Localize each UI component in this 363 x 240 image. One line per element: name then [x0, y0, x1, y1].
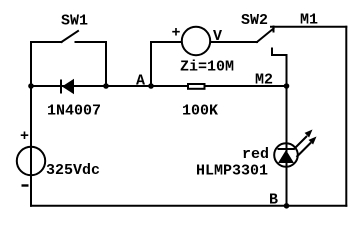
LED D2 cathode bar	[278, 148, 295, 150]
voltmeter U1 circle	[182, 27, 210, 55]
switch SW2 top contact	[273, 27, 275, 32]
diode D1 1N4007 cathode bar	[60, 80, 62, 94]
node junction dot left	[28, 83, 34, 89]
LED D2 circle	[274, 143, 298, 167]
node B junction dot	[284, 203, 290, 209]
switch SW2 lever	[257, 29, 274, 43]
svg-text:V: V	[213, 28, 222, 45]
svg-text:red: red	[242, 146, 269, 163]
wire LED branch	[286, 86, 288, 206]
wire M1 top	[271, 26, 346, 28]
node M2 junction dot	[284, 83, 290, 89]
diode D1 1N4007 triangle	[62, 79, 74, 94]
switch SW1 lever	[62, 31, 79, 42]
LED D2 triangle	[278, 150, 294, 163]
wire SW1 top-left	[31, 41, 62, 43]
svg-text:100K: 100K	[182, 103, 218, 120]
svg-text:1N4007: 1N4007	[47, 103, 101, 120]
svg-text:M1: M1	[300, 12, 318, 29]
wire diode line	[31, 85, 287, 87]
svg-text:+: +	[20, 128, 29, 145]
svg-text:A: A	[136, 73, 145, 90]
svg-text:325Vdc: 325Vdc	[46, 162, 100, 179]
wire voltmeter branch vertical	[150, 42, 152, 86]
svg-text:+: +	[171, 25, 180, 42]
wire bottom	[31, 205, 346, 207]
wire right edge	[345, 27, 347, 206]
switch SW2 lower contact stub	[272, 49, 287, 87]
LED arrow upper head	[305, 130, 313, 138]
LED arrow lower head	[309, 137, 317, 145]
svg-text:B: B	[269, 192, 278, 209]
label source minus	[22, 184, 29, 186]
svg-text:Zi=10M: Zi=10M	[180, 59, 234, 76]
svg-text:M2: M2	[255, 72, 273, 89]
wire SW1 top-right	[76, 42, 107, 86]
source V1 circle	[17, 147, 45, 175]
resistor R1 100K body	[188, 84, 205, 89]
wire voltmeter left	[151, 41, 182, 43]
node junction dot SW1 right	[103, 83, 109, 89]
svg-text:SW1: SW1	[61, 13, 88, 30]
LED arrow upper shaft	[294, 136, 308, 150]
svg-text:SW2: SW2	[241, 12, 268, 29]
node A junction dot	[148, 83, 154, 89]
LED arrow lower shaft	[297, 143, 312, 158]
wire left vertical	[30, 42, 32, 206]
svg-text:HLMP3301: HLMP3301	[196, 163, 268, 180]
wire voltmeter right	[211, 41, 258, 43]
